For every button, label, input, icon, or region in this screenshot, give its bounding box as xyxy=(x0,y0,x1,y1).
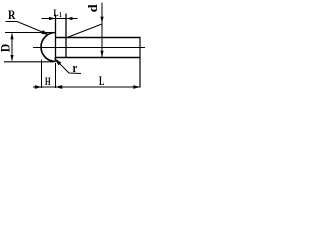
svg-text:1: 1 xyxy=(59,11,62,19)
svg-text:D: D xyxy=(0,44,12,53)
svg-text:L: L xyxy=(53,9,58,19)
svg-text:r: r xyxy=(73,60,78,75)
svg-text:R: R xyxy=(8,8,16,22)
svg-text:L: L xyxy=(99,73,105,88)
svg-text:H: H xyxy=(45,76,51,88)
svg-text:d: d xyxy=(85,3,100,12)
